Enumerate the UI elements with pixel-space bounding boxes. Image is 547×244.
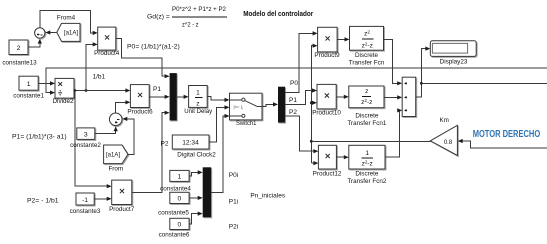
wire Demux P0 to Product9 input1: [285, 33, 313, 92]
svg-text:constante2: constante2: [70, 142, 101, 149]
wire Switch1 output to Demux: [262, 104, 274, 106]
wire constante13 to Sum1 bottom: [28, 40, 40, 48]
svg-text:From4: From4: [57, 15, 76, 22]
svg-text:[a1A]: [a1A]: [64, 31, 78, 37]
arrowhead into Divide2 in1: [50, 81, 55, 85]
arrowhead into Product6 in2: [125, 100, 130, 104]
svg-text:z: z: [365, 88, 368, 95]
multiplier Product12: [318, 145, 336, 169]
svg-text:Product12: Product12: [313, 171, 342, 178]
svg-text:Discrete: Discrete: [355, 171, 379, 178]
multiplier Product4: [98, 27, 116, 50]
sign minus on Sum2 right input: [117, 118, 120, 120]
wire Mux2 output to Switch1 input3: [211, 116, 225, 192]
arrowhead into Discrete Transfer Fcn: [345, 37, 350, 41]
sign minus on Sum1 right input: [40, 34, 42, 36]
wire 1/b1 branch up to Product4 input2: [86, 44, 93, 90]
svg-text:Transfer Fcn1: Transfer Fcn1: [347, 120, 386, 127]
wire Discrete Transfer Fcn output to Sum3 input1: [384, 39, 398, 83]
annotation Gd(z) equation: [147, 6, 227, 29]
svg-text:P2i: P2i: [229, 224, 238, 231]
svg-text:-1: -1: [82, 197, 88, 204]
wire Sum2 output to Product6 input2: [116, 102, 126, 113]
wire From4 to Sum1 right input: [50, 31, 57, 33]
sum block Sum3: [402, 77, 416, 116]
wire constante3 to Product7 input2: [94, 198, 107, 200]
arrowhead into Sum3 in3: [397, 108, 402, 112]
transfer function Discrete Transfer Fcn2: [349, 145, 385, 169]
arrowhead into Switch1 in2: [225, 105, 230, 109]
arrowhead into Product4 in2: [93, 42, 98, 46]
mux Mux1: [170, 73, 177, 120]
svg-text:Product7: Product7: [109, 206, 135, 213]
sum junction Sum1: [35, 28, 45, 38]
svg-text:Product4: Product4: [94, 50, 120, 57]
svg-text:Product10: Product10: [312, 110, 341, 117]
svg-text:Transfer Fcn: Transfer Fcn: [349, 60, 385, 67]
wire Divide2 output 1/b1 to Product6 input1: [74, 90, 126, 92]
wire Demux P1 to Product10 input1: [285, 91, 312, 105]
svg-text:constante4: constante4: [160, 186, 191, 193]
multiplier Product10: [317, 84, 336, 109]
wire Sum1 output top to Product4 input1: [40, 11, 93, 33]
wire Unit Delay output to Switch1 input1: [207, 97, 225, 100]
svg-text:P0: P0: [290, 80, 298, 87]
arrowhead into Product4 in1: [93, 31, 98, 35]
wire 1/b1 branch down to Product7 input1: [75, 91, 107, 187]
arrowhead into Discrete Transfer Fcn2: [344, 155, 349, 159]
svg-text:P1: P1: [289, 97, 297, 104]
arrowhead into Product9 in2: [313, 44, 318, 48]
constant block constante3: [76, 193, 94, 205]
svg-text:constante13: constante13: [2, 60, 37, 67]
wire Sum3 output to right edge: [421, 82, 547, 84]
svg-text:constante1: constante1: [13, 93, 44, 100]
svg-text:z2-z: z2-z: [362, 41, 373, 49]
svg-text:Gd(z) =: Gd(z) =: [147, 14, 170, 21]
transfer function Discrete Transfer Fcn: [350, 26, 384, 50]
wire MOTOR DERECHO input into Km: [462, 141, 547, 148]
svg-text:1: 1: [27, 81, 31, 88]
constant block constante6: [170, 218, 189, 229]
wire Product4 output P0 to Mux port1: [116, 39, 165, 77]
arrowhead into Mux port3: [165, 111, 170, 115]
divider Divide2: [55, 78, 74, 98]
svg-text:P1i: P1i: [229, 199, 238, 206]
svg-text:Modelo del controlador: Modelo del controlador: [243, 9, 313, 18]
svg-text:1: 1: [365, 150, 369, 157]
svg-text:P1= (1/b1)*(3- a1): P1= (1/b1)*(3- a1): [12, 134, 67, 141]
sign plus on Sum1 bottom input: [37, 33, 39, 35]
arrowhead into Sum3 in1: [397, 81, 402, 85]
svg-text:Divide2: Divide2: [53, 98, 74, 105]
svg-text:Display23: Display23: [440, 58, 468, 65]
constant block constante13: [9, 40, 28, 55]
mux Mux2 Pn_iniciales: [203, 167, 212, 217]
svg-text:Discrete: Discrete: [355, 113, 379, 120]
gain block Km: [430, 125, 457, 155]
constant block constante5: [170, 192, 189, 203]
svg-text:P2: P2: [289, 109, 297, 116]
svg-text:0: 0: [178, 196, 182, 203]
multiplier Product9: [318, 27, 338, 52]
svg-text:z2-z: z2-z: [362, 160, 373, 168]
arrowhead into Discrete Transfer Fcn1: [344, 95, 349, 99]
svg-text:Pn_iniciales: Pn_iniciales: [250, 192, 285, 199]
svg-text:Transfer Fcn2: Transfer Fcn2: [347, 178, 386, 185]
wire Product12 output to Discrete Transfer Fcn2: [336, 156, 344, 158]
svg-text:3: 3: [84, 132, 88, 139]
wire Demux P2 to Product12 input1: [285, 116, 314, 151]
demux Demux1: [278, 87, 285, 123]
svg-text:|>= 1: |>= 1: [234, 104, 244, 109]
arrowhead into Product9 in1: [313, 31, 318, 35]
wire Sum3 output to Display23 and right edge: [416, 49, 426, 97]
junction dot on Sum3 output: [420, 82, 423, 85]
svg-text:0: 0: [178, 222, 182, 229]
svg-text:constante5: constante5: [158, 209, 189, 216]
arrowhead into Product10 in2: [312, 101, 317, 105]
wire constante5 to Mux2 port2: [189, 197, 198, 199]
svg-text:Digital Clock2: Digital Clock2: [177, 152, 216, 159]
arrowhead into Unit Delay: [184, 95, 189, 99]
wire Product6 output P1 to Mux port2: [149, 96, 165, 98]
wire Mux1 output to Unit Delay: [177, 96, 184, 98]
arrowhead into Display23: [425, 47, 430, 51]
svg-text:Product6: Product6: [127, 109, 153, 116]
junction dot on 1/b1 wire: [85, 89, 88, 92]
arrowhead into Demux: [273, 102, 278, 106]
display block Display23: [430, 41, 476, 57]
wire constante4 to Mux2 port1: [189, 172, 198, 176]
constant block constante1: [19, 76, 38, 90]
arrowhead into Mux2 port2: [198, 196, 203, 200]
svg-text:P0i: P0i: [229, 172, 238, 179]
wire constante1 to Divide2 input1: [38, 82, 50, 84]
wire Digital Clock2 to Switch1 input2: [209, 107, 225, 142]
arrowhead into Switch1 in3: [225, 114, 230, 118]
arrowhead into Product7 in2: [107, 197, 112, 201]
arrowhead into Km input: [458, 139, 463, 143]
arrowhead into Sum2 right: [122, 117, 127, 121]
svg-text:From: From: [108, 166, 123, 173]
arrowhead into Mux2 port3: [198, 212, 203, 216]
arrowhead into Product10 in1: [312, 88, 317, 92]
goto tag From4: [57, 23, 80, 41]
svg-text:1: 1: [196, 90, 200, 97]
svg-text:Km: Km: [439, 117, 448, 124]
wire b1 feedback long horizontal into Divide2 divisor: [46, 68, 547, 93]
junction dot where Km wire meets bus: [310, 140, 313, 143]
arrowhead into Sum1 right: [45, 30, 50, 34]
wire Km output to feedback bus: [311, 140, 430, 142]
multiplier Product6: [130, 85, 149, 108]
arrowhead into Product7 in1: [107, 184, 112, 188]
arrowhead into Divide2 in2: [50, 91, 55, 95]
svg-text:constante6: constante6: [159, 232, 190, 239]
svg-text:Discrete: Discrete: [355, 52, 379, 59]
wire Product10 output to Discrete Transfer Fcn1: [336, 96, 345, 98]
svg-text:constante3: constante3: [70, 208, 101, 215]
sign plus on Sum2 bottom input: [115, 121, 117, 123]
svg-text:1: 1: [178, 174, 182, 181]
arrowhead into Product12 in2: [313, 161, 318, 165]
arrowhead into Mux port1: [165, 74, 170, 78]
transfer function Discrete Transfer Fcn1: [349, 86, 384, 108]
svg-text:Unit Delay: Unit Delay: [184, 108, 213, 115]
svg-text:P2= - 1/b1: P2= - 1/b1: [27, 198, 59, 205]
svg-text:P1: P1: [153, 86, 161, 93]
goto tag From: [104, 145, 128, 164]
wire Km feedback vertical bus to Product9/10/12 second inputs: [311, 46, 313, 163]
wire From to Sum2 right input: [127, 119, 134, 154]
svg-text:[a1A]: [a1A]: [106, 153, 120, 159]
svg-text:2: 2: [17, 45, 21, 52]
delay block Unit Delay: [189, 86, 208, 108]
arrowhead into Product12 in1: [313, 149, 318, 153]
arrowhead into Mux2 port1: [198, 170, 203, 174]
svg-text:1/b1: 1/b1: [93, 74, 106, 81]
arrowhead into Switch1 in1: [225, 98, 230, 102]
wire constante6 to Mux2 port3: [189, 214, 198, 224]
svg-text:P2: P2: [161, 141, 169, 148]
svg-text:0.8: 0.8: [444, 140, 453, 146]
constant block constante4: [170, 170, 189, 181]
multiplier Product7: [112, 180, 132, 204]
wire Product9 output to Discrete Transfer Fcn: [337, 38, 345, 40]
junction dot on feedback bus at Product10 branch: [310, 101, 313, 104]
svg-text:z2-z: z2-z: [361, 98, 372, 106]
svg-text:12:34: 12:34: [182, 139, 199, 146]
sum junction Sum2: [109, 113, 122, 126]
svg-text:z^2 - z: z^2 - z: [182, 22, 199, 29]
clock block Digital Clock2: [172, 135, 209, 149]
wire Discrete Transfer Fcn1 output to Sum3 input2: [384, 96, 398, 98]
svg-text:P0= (1/b1)*(a1-2): P0= (1/b1)*(a1-2): [127, 44, 180, 51]
wire constante2 to Sum2 bottom: [95, 127, 116, 133]
svg-text:P0*z^2 + P1*z + P2: P0*z^2 + P1*z + P2: [172, 6, 226, 13]
switch block Switch1: [230, 93, 263, 120]
svg-text:z: z: [196, 101, 199, 108]
arrowhead into Sum1 bottom: [38, 39, 42, 44]
svg-text:Product9: Product9: [314, 52, 340, 59]
svg-text:MOTOR DERECHO: MOTOR DERECHO: [473, 129, 541, 140]
arrowhead into Sum3 in2: [397, 95, 402, 99]
svg-text:Switch1: Switch1: [236, 120, 257, 127]
constant block constante2: [77, 128, 95, 139]
junction dot at Divide2 output branch: [73, 89, 76, 92]
arrowhead into Mux port2: [165, 95, 170, 99]
wire Discrete Transfer Fcn2 output to Sum3 input3: [385, 110, 400, 157]
arrowhead into Product6 in1: [125, 88, 130, 92]
arrowhead into Sum2 bottom: [114, 126, 118, 131]
wire Product7 output P2 to Mux port3: [132, 113, 165, 193]
